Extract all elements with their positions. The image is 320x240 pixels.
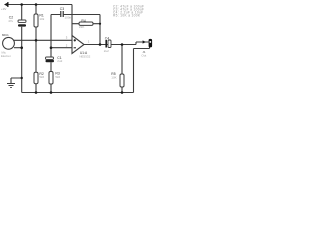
svg-text:2u2: 2u2: [104, 49, 109, 53]
svg-text:10K: 10K: [111, 76, 116, 80]
svg-text:100n: 100n: [65, 16, 72, 20]
svg-text:C4: C4: [105, 36, 109, 40]
svg-text:+9V: +9V: [1, 7, 6, 11]
svg-text:NE5532: NE5532: [79, 54, 90, 58]
svg-text:5k6: 5k6: [55, 75, 60, 79]
svg-text:22K: 22K: [79, 25, 84, 29]
svg-text:C3: C3: [60, 7, 64, 11]
svg-text:5k6: 5k6: [39, 75, 44, 79]
svg-text:Out: Out: [141, 53, 146, 57]
svg-text:47u: 47u: [8, 19, 13, 23]
svg-text:MIC1: MIC1: [2, 33, 9, 37]
svg-text:Electret: Electret: [1, 54, 11, 58]
svg-text:R4: R4: [81, 19, 85, 23]
svg-text:R5: 10K a 100K: R5: 10K a 100K: [113, 13, 141, 17]
svg-text:10k: 10k: [39, 17, 44, 21]
svg-text:2u2: 2u2: [57, 59, 62, 63]
